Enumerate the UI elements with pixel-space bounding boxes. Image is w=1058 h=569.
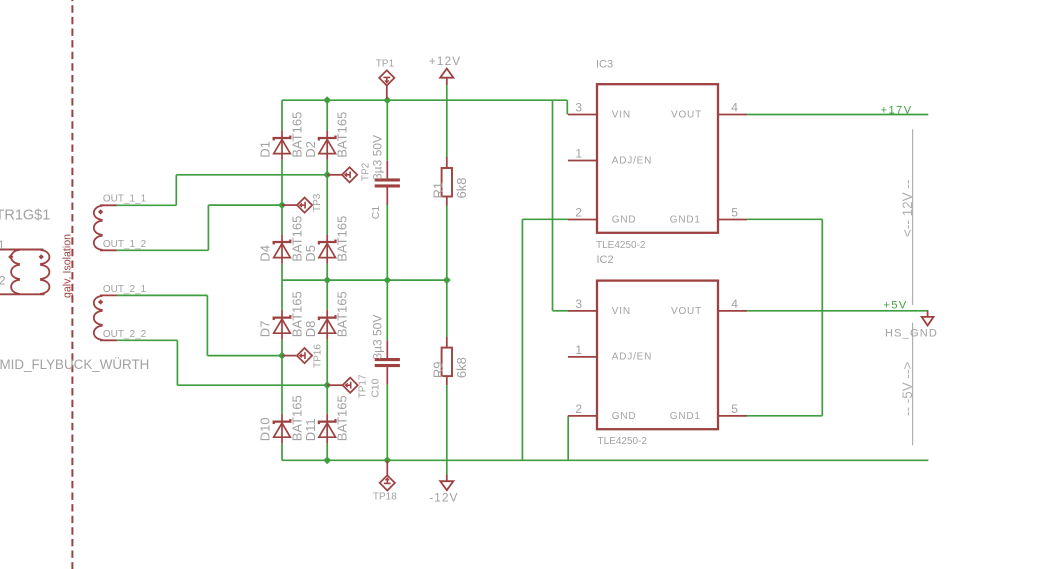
svg-text:OUT_2_2: OUT_2_2	[103, 329, 147, 340]
svg-text:4: 4	[731, 101, 738, 115]
svg-text:GND1: GND1	[670, 215, 701, 226]
svg-text:BAT165: BAT165	[334, 395, 349, 441]
svg-text:-- -5V -->: -- -5V -->	[900, 362, 915, 416]
svg-text:4: 4	[731, 297, 738, 311]
svg-text:D5: D5	[303, 245, 318, 262]
svg-text:2: 2	[0, 273, 6, 287]
svg-text:VIN: VIN	[612, 110, 631, 121]
svg-text:2: 2	[575, 402, 582, 416]
svg-text:GND: GND	[612, 411, 637, 422]
svg-text:C10: C10	[369, 378, 381, 397]
svg-text:ADJ/EN: ADJ/EN	[612, 155, 652, 166]
svg-text:+12V: +12V	[429, 54, 461, 68]
svg-text:OUT_2_1: OUT_2_1	[103, 284, 147, 295]
svg-text:D8: D8	[303, 321, 318, 338]
svg-text:VOUT: VOUT	[671, 110, 702, 121]
svg-text:+5V: +5V	[883, 299, 907, 311]
svg-text:TP3: TP3	[312, 193, 323, 212]
svg-text:HS_GND: HS_GND	[885, 328, 938, 340]
svg-text:BAT165: BAT165	[289, 291, 304, 337]
svg-text:TLE4250-2: TLE4250-2	[596, 240, 646, 251]
svg-text:TLE4250-2: TLE4250-2	[598, 436, 648, 447]
svg-text:TP18: TP18	[373, 492, 397, 503]
svg-text:3: 3	[575, 297, 582, 311]
svg-text:D2: D2	[303, 141, 318, 158]
svg-text:BAT165: BAT165	[289, 216, 304, 262]
svg-text:BAT165: BAT165	[334, 112, 349, 158]
svg-text:1: 1	[0, 238, 5, 252]
svg-text:OUT_1_2: OUT_1_2	[103, 239, 147, 250]
svg-text:TP17: TP17	[358, 374, 369, 398]
svg-text:3µ3 50V: 3µ3 50V	[370, 315, 384, 360]
svg-text:BAT165: BAT165	[289, 112, 304, 158]
svg-text:5: 5	[731, 402, 738, 416]
svg-text:D11: D11	[303, 418, 318, 441]
svg-text:5: 5	[731, 206, 738, 220]
svg-text:R9: R9	[430, 361, 445, 378]
svg-text:OUT_1_1: OUT_1_1	[103, 194, 147, 205]
svg-text:<-- 12V --: <-- 12V --	[900, 180, 915, 237]
svg-text:6k8: 6k8	[454, 357, 469, 378]
svg-text:3µ3 50V: 3µ3 50V	[370, 135, 384, 180]
svg-text:GND: GND	[612, 215, 637, 226]
svg-text:D4: D4	[258, 245, 273, 262]
svg-text:C1: C1	[370, 206, 382, 220]
svg-text:2: 2	[575, 206, 582, 220]
svg-text:BAT165: BAT165	[334, 216, 349, 262]
svg-text:IC2: IC2	[597, 254, 614, 266]
svg-text:BAT165: BAT165	[289, 395, 304, 441]
svg-text:3: 3	[575, 101, 582, 115]
svg-text:BAT165: BAT165	[334, 291, 349, 337]
svg-text:D7: D7	[258, 321, 273, 338]
svg-text:IC3: IC3	[596, 58, 613, 70]
svg-text:VIN: VIN	[612, 306, 631, 317]
svg-text:TP1: TP1	[376, 58, 395, 69]
svg-text:TR1G$1: TR1G$1	[0, 207, 50, 223]
svg-text:-12V: -12V	[429, 490, 458, 504]
svg-text:galv. Isolation: galv. Isolation	[61, 234, 73, 298]
svg-text:1: 1	[575, 147, 582, 161]
svg-text:+17V: +17V	[881, 104, 913, 116]
svg-text:D10: D10	[258, 417, 273, 441]
svg-text:VOUT: VOUT	[671, 306, 702, 317]
svg-text:D1: D1	[258, 141, 273, 158]
svg-text:MID_FLYBUCK_WÜRTH: MID_FLYBUCK_WÜRTH	[0, 357, 149, 372]
svg-text:ADJ/EN: ADJ/EN	[612, 352, 652, 363]
svg-text:GND1: GND1	[670, 411, 701, 422]
svg-text:TP16: TP16	[313, 344, 324, 368]
svg-text:6k8: 6k8	[454, 178, 469, 199]
svg-text:R1: R1	[430, 182, 445, 199]
svg-text:1: 1	[575, 343, 582, 357]
